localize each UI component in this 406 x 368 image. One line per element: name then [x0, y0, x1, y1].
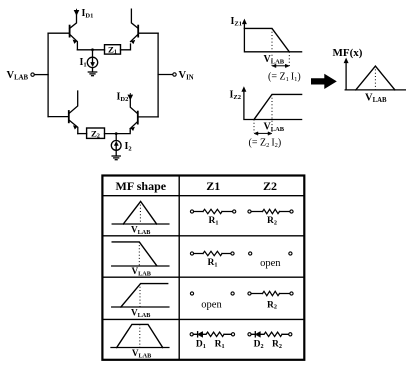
table row rule 1 [102, 235, 304, 237]
wire base Q2 [138, 32, 158, 34]
wire Z1 to Q2 emitter [121, 44, 131, 50]
svg-text:R2: R2 [272, 339, 282, 349]
svg-text:R2: R2 [267, 300, 277, 310]
wire right rail [157, 33, 159, 117]
row1 Z1 resistor R1 [190, 209, 235, 226]
svg-text:MF(x): MF(x) [333, 47, 363, 59]
row1 MF shape triangle [112, 201, 169, 236]
current source I2 [111, 134, 121, 151]
svg-text:Z1: Z1 [108, 44, 117, 55]
svg-text:VLAB: VLAB [264, 54, 285, 66]
ground (I2) [112, 150, 120, 159]
node junction I2 [115, 132, 118, 135]
row3 MF shape rising ramp [112, 284, 169, 319]
transistor Q2 [131, 9, 139, 43]
wire Q1 emitter to Z1 [77, 49, 104, 51]
wire V_LAB to left rail [34, 74, 48, 76]
table column divider [178, 176, 180, 360]
graph 2 dotted guide at ramp start [253, 120, 255, 134]
graph 1 axes (I_Z1) [242, 19, 301, 51]
svg-text:Z1: Z1 [206, 179, 220, 193]
svg-text:IZ1: IZ1 [231, 16, 243, 28]
svg-text:Z2: Z2 [263, 179, 277, 193]
svg-text:open: open [201, 300, 222, 311]
svg-text:(= Z2 I2): (= Z2 I2) [249, 138, 282, 150]
row4 MF shape trapezoid [111, 324, 169, 359]
graph 1 width arrow [272, 64, 289, 67]
impedance Z1 [105, 44, 121, 55]
ground (I1) [88, 68, 96, 76]
transistor Q4 [130, 96, 138, 131]
wire left rail [47, 33, 49, 116]
wire base Q1 [48, 32, 70, 34]
svg-text:Z2: Z2 [91, 128, 100, 139]
svg-text:VLAB: VLAB [264, 121, 285, 133]
svg-text:IZ2: IZ2 [230, 89, 242, 101]
graph 2 width arrow [254, 132, 272, 135]
row2 Z2 open [249, 252, 292, 269]
svg-text:VLAB: VLAB [132, 266, 151, 277]
graph 2 curve [254, 94, 302, 119]
wire base Q3 [48, 116, 69, 118]
node junction I1 [91, 48, 94, 51]
transistor Q3 [69, 91, 78, 134]
wire base Q4 [138, 116, 158, 118]
wire V_IN [158, 74, 173, 76]
graph 2 dotted guide at ramp end [271, 94, 273, 133]
svg-text:VLAB: VLAB [131, 307, 150, 318]
svg-text:ID2: ID2 [117, 91, 129, 103]
current arrow I_D1 [74, 9, 78, 15]
node V_IN terminal [173, 73, 176, 76]
big result arrow [311, 74, 337, 89]
current source I1 [87, 50, 97, 68]
svg-text:MF shape: MF shape [116, 179, 167, 193]
row1 Z2 resistor R2 [248, 209, 293, 226]
row4 Z2 diode D2 + resistor R2 [248, 332, 292, 350]
svg-text:I2: I2 [125, 141, 132, 153]
svg-text:R1: R1 [215, 339, 225, 349]
svg-text:open: open [260, 258, 281, 269]
svg-text:VIN: VIN [179, 70, 194, 82]
svg-text:(= Z1 I1): (= Z1 I1) [268, 72, 301, 84]
row4 Z1 diode D1 + resistor R1 [190, 332, 235, 350]
graph 2 axes (I_Z2) [242, 87, 302, 120]
table row rule 2 [102, 276, 304, 278]
svg-text:R2: R2 [267, 216, 277, 226]
svg-text:R1: R1 [208, 258, 218, 268]
row3 Z1 open [190, 292, 234, 311]
table header rule [102, 195, 304, 197]
wire Q3 emitter to Z2 [78, 133, 87, 135]
graph 1 curve [244, 28, 289, 51]
svg-text:VLAB: VLAB [365, 92, 387, 104]
svg-text:R1: R1 [209, 216, 219, 226]
svg-text:VLAB: VLAB [131, 225, 150, 236]
wire Z2 to Q4 emitter [105, 131, 131, 134]
table outer border [102, 176, 304, 360]
svg-text:VLAB: VLAB [132, 348, 151, 359]
row2 Z1 resistor R1 [190, 251, 234, 268]
current arrow I_D2 [128, 94, 132, 100]
svg-text:VLAB: VLAB [7, 70, 29, 82]
svg-text:I1: I1 [80, 57, 87, 69]
graph 3 triangle MF curve [356, 66, 395, 90]
graph 1 dotted guide at ramp start [271, 28, 273, 66]
row2 MF shape falling ramp [112, 242, 169, 278]
svg-text:D1: D1 [196, 339, 206, 349]
graph 3 axes [344, 58, 406, 90]
graph 1 dotted guide at ramp end [288, 52, 290, 67]
svg-text:D2: D2 [254, 339, 264, 349]
graph 3 dotted guide [374, 66, 376, 90]
node V_LAB terminal [31, 73, 34, 76]
transistor Q1 [70, 12, 78, 50]
row3 Z2 resistor R2 [248, 291, 293, 310]
impedance Z2 [87, 128, 105, 140]
table row rule 3 [102, 318, 304, 320]
svg-text:ID1: ID1 [82, 8, 94, 20]
